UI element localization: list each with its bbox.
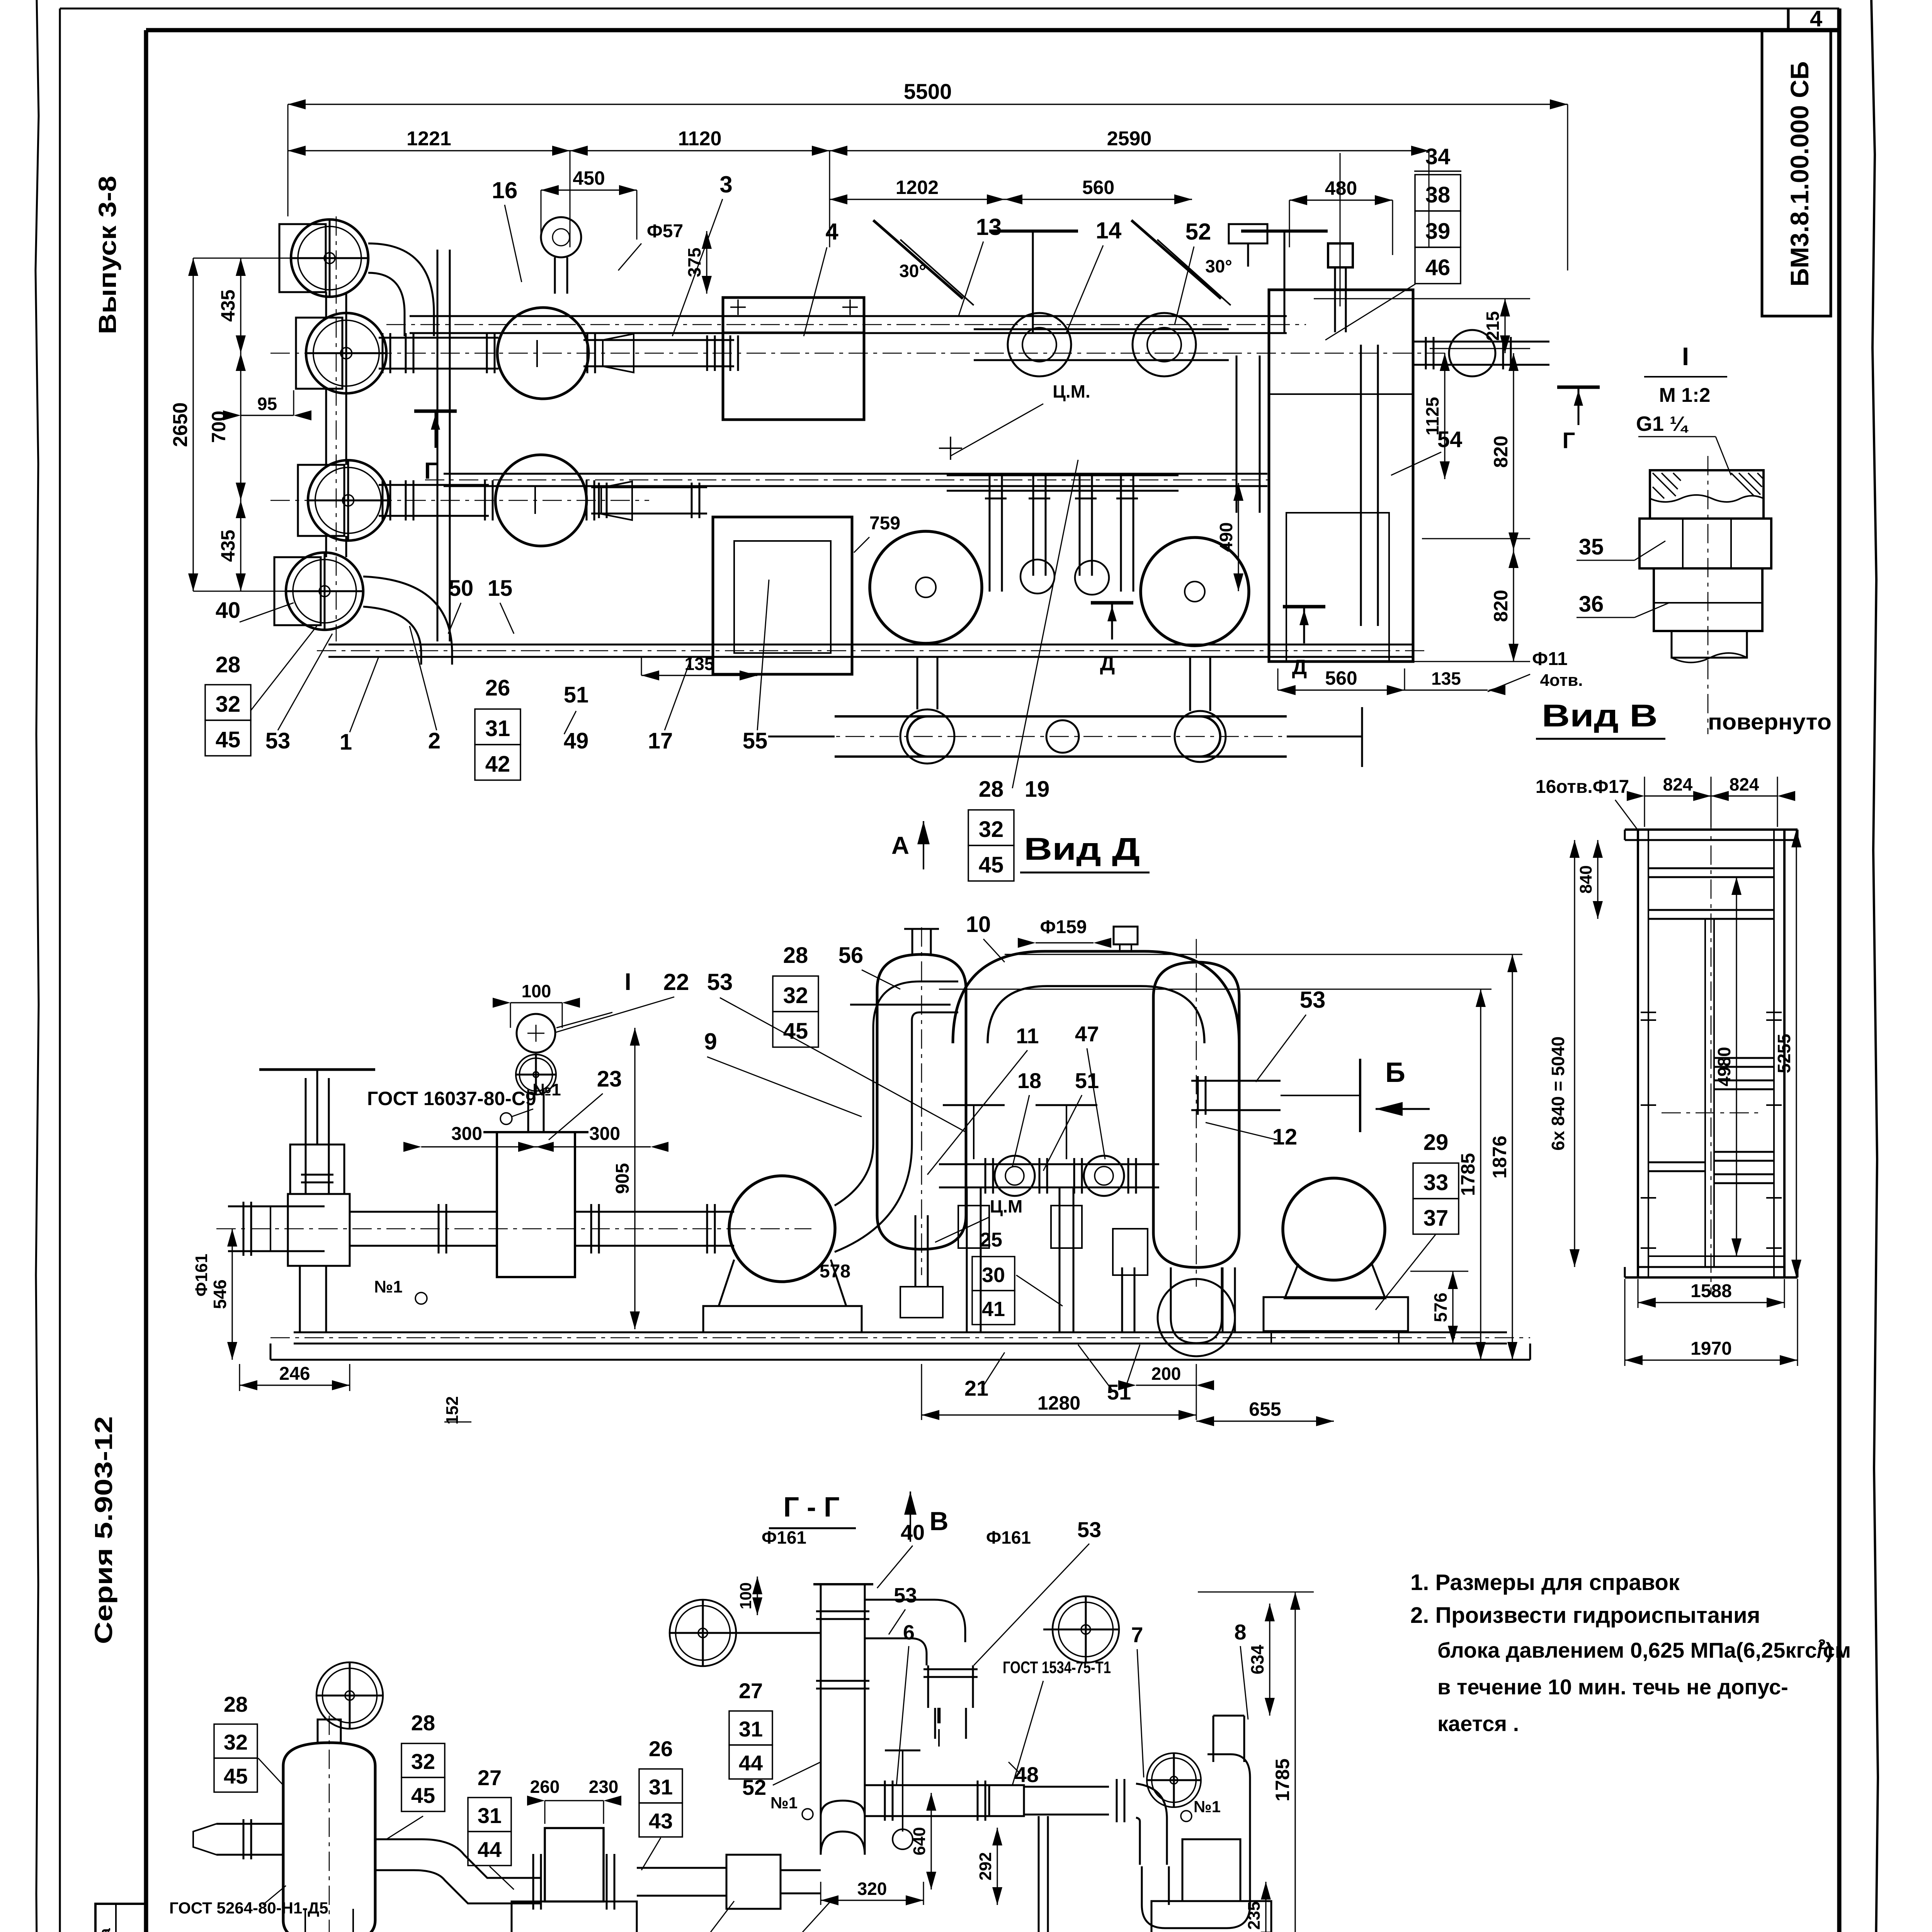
svg-text:В: В	[929, 1507, 948, 1536]
svg-text:820: 820	[1490, 435, 1512, 468]
view2 arch pipe between vessels	[953, 951, 1239, 1043]
svg-text:блока давлением 0,625 МПа(6,25: блока давлением 0,625 МПа(6,25кгс/см	[1437, 1638, 1851, 1662]
dim 135 left bottom	[641, 675, 757, 676]
view2 vessel2 separator	[1153, 962, 1239, 1267]
svg-text:Серия 5.903-12: Серия 5.903-12	[90, 1416, 117, 1644]
view2 vessel2 bottom drain U	[1171, 1267, 1222, 1343]
v3 drain small pipe center	[1038, 1816, 1040, 1932]
v2 dims 300 300	[421, 1146, 536, 1147]
svg-text:№1: №1	[770, 1794, 798, 1812]
svg-text:26: 26	[649, 1736, 673, 1761]
v3 handwheel top left	[316, 1662, 383, 1729]
svg-text:29: 29	[1423, 1130, 1449, 1155]
sheet number box 4	[1787, 9, 1790, 30]
svg-text:100: 100	[736, 1582, 755, 1609]
left dims 435 700 435	[240, 258, 241, 353]
view1 gauge small top	[541, 217, 581, 257]
svg-text:Ф161: Ф161	[986, 1527, 1031, 1548]
svg-text:28: 28	[224, 1692, 248, 1716]
svg-text:30°: 30°	[899, 261, 926, 281]
svg-text:49: 49	[564, 728, 589, 753]
svg-text:32: 32	[979, 817, 1004, 842]
svg-text:52: 52	[742, 1775, 766, 1799]
svg-text:578: 578	[820, 1261, 850, 1282]
svg-text:Д: Д	[1100, 652, 1115, 675]
svg-text:Ф161: Ф161	[192, 1254, 211, 1297]
svg-text:2: 2	[1818, 1636, 1826, 1652]
view1 upper pipe centerline	[270, 353, 1445, 354]
v2 dim 100	[510, 1002, 562, 1003]
svg-text:546: 546	[210, 1279, 230, 1309]
svg-text:М 1:2: М 1:2	[1659, 384, 1711, 406]
view1 lower flywheel pump right	[1141, 537, 1249, 646]
svg-text:1120: 1120	[678, 128, 722, 150]
section flag Д view1 pair	[1091, 601, 1133, 605]
svg-text:759: 759	[869, 513, 900, 534]
view1 pump sphere upper	[497, 308, 588, 399]
svg-text:300: 300	[589, 1124, 620, 1144]
view1 drop pipes to bottom manifold	[917, 657, 918, 709]
frame dim 840	[1597, 840, 1598, 919]
svg-text:17: 17	[648, 728, 673, 753]
svg-text:43: 43	[649, 1809, 673, 1833]
frame dims 4980 5255	[1736, 877, 1737, 1256]
dim 1202 560	[830, 199, 1005, 200]
svg-text:I: I	[1682, 342, 1689, 371]
svg-text:1970: 1970	[1690, 1338, 1732, 1359]
svg-text:25: 25	[980, 1229, 1002, 1251]
svg-text:39: 39	[1425, 219, 1451, 244]
v3 left vessel	[283, 1743, 375, 1932]
dim 5500	[288, 104, 1568, 105]
view1 handwheel valve top-left	[291, 219, 368, 297]
svg-text:27: 27	[478, 1765, 502, 1790]
svg-text:28: 28	[216, 652, 241, 677]
svg-text:260: 260	[530, 1777, 560, 1797]
view2 motor base pedestal	[1264, 1297, 1408, 1331]
svg-text:51: 51	[564, 682, 589, 707]
section flag Г view1 left	[414, 410, 457, 413]
svg-text:480: 480	[1325, 177, 1357, 199]
v3 pipe vessel to pump block	[375, 1839, 541, 1878]
svg-text:435: 435	[217, 289, 239, 321]
svg-text:БМ3.8.1.00.000 СБ: БМ3.8.1.00.000 СБ	[1785, 61, 1814, 287]
svg-text:37: 37	[1423, 1206, 1449, 1231]
view1 right tank outline	[1269, 290, 1413, 662]
svg-text:27: 27	[739, 1679, 763, 1703]
right dims 215 820 1125 820	[1504, 299, 1505, 353]
svg-text:6х 840 = 5040: 6х 840 = 5040	[1548, 1036, 1568, 1150]
view1 lower pipe centerline	[270, 500, 649, 501]
v2 dim 246 152	[240, 1384, 350, 1386]
svg-text:655: 655	[1249, 1398, 1281, 1420]
svg-text:56: 56	[838, 943, 864, 968]
svg-text:95: 95	[257, 394, 277, 414]
frame dims 1588 1970	[1638, 1302, 1784, 1303]
svg-text:28: 28	[979, 777, 1004, 802]
v3 center riser pipe	[820, 1584, 822, 1855]
svg-text:2590: 2590	[1107, 128, 1152, 150]
svg-text:32: 32	[411, 1749, 435, 1774]
v3 right pump block	[1182, 1839, 1240, 1901]
svg-text:Г: Г	[424, 458, 437, 484]
svg-text:2. Произвести гидроиспытания: 2. Произвести гидроиспытания	[1410, 1603, 1760, 1628]
svg-text:44: 44	[739, 1751, 763, 1775]
v3 handwheel right	[1053, 1596, 1119, 1663]
svg-text:45: 45	[411, 1783, 435, 1808]
v3 dims 320 640 292	[821, 1900, 923, 1901]
view1 lower flywheel pump left	[870, 531, 982, 643]
v3 pump block mid	[545, 1828, 604, 1901]
svg-text:435: 435	[217, 530, 239, 562]
svg-text:640: 640	[910, 1827, 929, 1855]
dim row 1221 1120 2590	[288, 150, 570, 151]
svg-text:1785: 1785	[1457, 1153, 1479, 1196]
svg-text:52: 52	[1185, 219, 1211, 245]
svg-text:41: 41	[982, 1298, 1005, 1321]
svg-text:40: 40	[901, 1520, 925, 1544]
svg-text:53: 53	[265, 728, 291, 753]
svg-text:320: 320	[857, 1879, 887, 1899]
svg-text:1280: 1280	[1037, 1392, 1080, 1414]
svg-text:Б: Б	[1385, 1057, 1405, 1088]
section flag Г right	[1557, 386, 1600, 389]
svg-text:4отв.: 4отв.	[1540, 671, 1583, 690]
svg-text:34: 34	[1425, 144, 1451, 169]
v3 dim 100 left riser	[757, 1577, 758, 1615]
svg-text:Г: Г	[1563, 428, 1575, 453]
svg-text:6: 6	[903, 1621, 915, 1644]
view1 square cap fitting	[1328, 243, 1353, 267]
svg-text:I: I	[936, 1703, 942, 1728]
svg-text:ГОСТ 5264-80-Н1-Д5: ГОСТ 5264-80-Н1-Д5	[169, 1899, 328, 1917]
frame cross members	[1648, 867, 1774, 869]
svg-text:53: 53	[894, 1584, 917, 1607]
frame side view rails	[1638, 830, 1784, 1277]
view2 left pipe to filter	[350, 1211, 497, 1213]
svg-text:10: 10	[966, 912, 991, 937]
svg-text:32: 32	[216, 692, 241, 717]
svg-text:1202: 1202	[896, 177, 939, 198]
v3 sq fitting 48	[989, 1785, 1024, 1816]
svg-text:ГОСТ 1534-75-Т1: ГОСТ 1534-75-Т1	[1003, 1658, 1111, 1677]
svg-text:560: 560	[1325, 667, 1357, 689]
view1 riser pipes right tanks	[1236, 355, 1238, 513]
view2 vessel2 column pipes to base	[1121, 1267, 1123, 1332]
inner thick frame	[146, 28, 1839, 32]
frame flange ticks	[1641, 1012, 1656, 1013]
view1 long pipe run upper	[410, 315, 1287, 317]
v3 pipe pump to center valve	[637, 1867, 726, 1869]
svg-text:11: 11	[1016, 1024, 1039, 1048]
svg-text:840: 840	[1577, 865, 1595, 893]
v2 dims right 576 1785 1876	[1452, 1271, 1453, 1344]
view1 main header pipe upper row	[379, 337, 498, 339]
svg-text:45: 45	[783, 1019, 808, 1044]
view2 main pipe axis	[216, 1228, 811, 1230]
svg-text:47: 47	[1075, 1022, 1099, 1046]
svg-text:5500: 5500	[904, 79, 952, 104]
dim 480	[1289, 199, 1393, 201]
view1 vert pipe x3544	[1360, 345, 1362, 626]
svg-text:824: 824	[1730, 774, 1759, 794]
v3 handwheel left of riser	[670, 1600, 736, 1666]
svg-text:№1: №1	[1194, 1798, 1221, 1816]
view2 left tee assembly	[228, 1206, 325, 1207]
svg-text:30°: 30°	[1205, 256, 1232, 276]
view1 drop flanges	[985, 490, 1007, 492]
svg-text:Ф11: Ф11	[1532, 649, 1568, 669]
svg-text:4980: 4980	[1714, 1047, 1734, 1086]
svg-text:576: 576	[1430, 1293, 1451, 1322]
v2 dims left 546 f161	[231, 1229, 233, 1360]
dim 450	[541, 189, 637, 190]
svg-text:Выпуск 3-8: Выпуск 3-8	[94, 176, 121, 334]
svg-text:31: 31	[478, 1803, 502, 1828]
view1 left riser pipe	[325, 292, 327, 318]
svg-text:300: 300	[451, 1124, 482, 1144]
view1 lower header pipes	[379, 484, 489, 486]
svg-text:13: 13	[976, 214, 1002, 240]
svg-text:35: 35	[1579, 534, 1604, 560]
svg-text:135: 135	[1431, 668, 1461, 689]
svg-text:55: 55	[743, 728, 768, 753]
left dim chain 2650	[192, 258, 194, 591]
svg-text:44: 44	[478, 1837, 502, 1862]
v3 dims 260 230	[545, 1800, 604, 1801]
view2 motor right	[1283, 1178, 1385, 1280]
svg-text:31: 31	[485, 716, 510, 741]
svg-text:ГОСТ 16037-80-С9: ГОСТ 16037-80-С9	[367, 1088, 536, 1109]
view1 upper axis flange pairs	[382, 333, 384, 373]
svg-text:292: 292	[976, 1852, 995, 1880]
svg-text:G1 ¼: G1 ¼	[1636, 412, 1689, 435]
svg-text:45: 45	[979, 852, 1004, 878]
svg-text:Подп. и дата: Подп. и дата	[97, 1928, 114, 1932]
view2 tee with long stem right	[1191, 1080, 1281, 1082]
svg-text:Ц.М: Ц.М	[990, 1196, 1023, 1216]
top right stamp box БМ3.8.1.00.000 СБ	[1762, 30, 1831, 316]
svg-text:1588: 1588	[1690, 1281, 1732, 1301]
svg-text:в течение 10 мин. течь не допу: в течение 10 мин. течь не допус-	[1437, 1675, 1788, 1699]
v2 dims bottom 1280 655 200	[922, 1414, 1196, 1415]
svg-text:31: 31	[649, 1775, 673, 1799]
svg-text:38: 38	[1425, 182, 1451, 207]
svg-text:18: 18	[1017, 1068, 1041, 1093]
svg-text:36: 36	[1579, 592, 1604, 617]
view2 manifold small valves	[939, 1163, 1159, 1165]
svg-text:21: 21	[964, 1376, 988, 1400]
view1 handwheel column centerline	[336, 216, 337, 641]
svg-text:42: 42	[485, 752, 510, 777]
svg-text:Вид В: Вид В	[1542, 698, 1658, 733]
v2 dim 905	[634, 1028, 635, 1329]
svg-text:Ц.М.: Ц.М.	[1053, 381, 1090, 401]
svg-text:23: 23	[597, 1066, 622, 1092]
svg-text:12: 12	[1272, 1124, 1298, 1150]
svg-text:1876: 1876	[1489, 1136, 1510, 1179]
svg-text:54: 54	[1437, 427, 1463, 452]
svg-text:45: 45	[216, 727, 241, 752]
v3 view arrow В	[904, 1492, 917, 1515]
svg-text:3: 3	[719, 172, 732, 197]
svg-text:450: 450	[573, 167, 605, 189]
v3 dims right 1785 235 166	[1294, 1592, 1296, 1932]
view1 inclined valve handles 30deg	[873, 220, 963, 299]
v3 left vessel outlet pipe	[216, 1823, 283, 1825]
svg-text:повернуто: повернуто	[1708, 709, 1832, 735]
svg-text:Ф57: Ф57	[647, 221, 683, 241]
svg-text:Ф159: Ф159	[1040, 917, 1087, 937]
dim 95	[241, 415, 294, 416]
svg-text:824: 824	[1663, 774, 1693, 794]
svg-text:53: 53	[1300, 987, 1326, 1013]
view1 left riser long	[437, 250, 439, 641]
view2 base channel	[294, 1332, 1507, 1333]
svg-text:45: 45	[224, 1764, 248, 1788]
svg-text:33: 33	[1423, 1170, 1449, 1195]
svg-text:16: 16	[492, 177, 518, 203]
dim 375 rotated	[706, 231, 707, 294]
dim 135 bottom right	[1405, 689, 1488, 690]
v3 valve stem center with N1	[902, 1750, 903, 1832]
view1 bottom manifold pipe	[835, 715, 1287, 718]
svg-text:8: 8	[1234, 1620, 1246, 1644]
svg-text:820: 820	[1490, 590, 1512, 622]
left margin stamp column cells	[95, 1904, 147, 1932]
page scan right edge line	[1871, 0, 1879, 1932]
view1 small tee valves lower	[1020, 560, 1054, 594]
frame dims 824 824	[1645, 795, 1711, 796]
view2 filter to pump pipe	[575, 1211, 734, 1213]
svg-text:32: 32	[783, 983, 808, 1008]
svg-text:53: 53	[1077, 1517, 1101, 1542]
svg-text:28: 28	[783, 943, 808, 968]
svg-text:Вид Д: Вид Д	[1024, 832, 1140, 867]
svg-text:1: 1	[340, 730, 352, 755]
svg-text:100: 100	[522, 981, 551, 1001]
view1 central drops manifold	[989, 474, 991, 592]
v3 right small handwheel	[1147, 1753, 1201, 1807]
svg-text:246: 246	[279, 1364, 310, 1384]
svg-text:9: 9	[704, 1029, 717, 1054]
svg-text:Г - Г: Г - Г	[783, 1492, 840, 1523]
svg-text:634: 634	[1247, 1645, 1267, 1674]
svg-text:560: 560	[1082, 177, 1114, 198]
svg-text:200: 200	[1151, 1364, 1181, 1384]
svg-text:4: 4	[825, 219, 838, 245]
svg-text:2650: 2650	[169, 402, 192, 447]
svg-text:31: 31	[739, 1717, 763, 1741]
dim 490 rotated	[1238, 483, 1239, 591]
svg-text:32: 32	[224, 1730, 248, 1754]
view1 base rails	[328, 644, 1414, 646]
view2 vessel1 separator	[877, 954, 966, 1249]
view1 valve body hw2	[306, 313, 386, 393]
svg-text:235: 235	[1245, 1901, 1264, 1930]
page scan left edge line	[36, 0, 39, 1932]
v3 tee to right top	[865, 1600, 965, 1642]
svg-text:1785: 1785	[1272, 1759, 1293, 1801]
svg-text:16отв.Ф17: 16отв.Ф17	[1536, 777, 1629, 797]
svg-text:19: 19	[1025, 777, 1050, 802]
view2 drop pipes with valves to base	[966, 1188, 968, 1332]
view1 tee fitting circles mid top	[1008, 313, 1071, 376]
view1 lower tank block	[713, 517, 852, 674]
view2 small fittings under vessel1	[900, 1287, 943, 1318]
svg-text:1. Размеры для справок: 1. Размеры для справок	[1410, 1570, 1680, 1595]
view1 elbow pipe from hw1	[368, 243, 434, 336]
svg-text:Д: Д	[1292, 656, 1307, 679]
view1 valve hw4	[286, 553, 363, 630]
svg-text:152: 152	[443, 1396, 462, 1424]
svg-text:1221: 1221	[406, 128, 451, 150]
view1 elbow pipe hw4 to bottom	[363, 607, 421, 665]
svg-text:46: 46	[1425, 255, 1451, 280]
view direction arrow А	[917, 821, 930, 844]
svg-text:375: 375	[684, 248, 704, 277]
svg-text:905: 905	[612, 1163, 633, 1194]
svg-text:15: 15	[488, 576, 513, 601]
svg-text:2: 2	[428, 728, 440, 753]
svg-text:48: 48	[1015, 1762, 1039, 1787]
svg-text:№1: №1	[532, 1080, 561, 1099]
frame centerline	[1711, 811, 1712, 1294]
view1 lower axis flange pairs	[382, 480, 384, 520]
view1 upper tank block	[723, 298, 864, 420]
view1 right pipe and valve	[1413, 341, 1549, 343]
svg-text:4: 4	[1810, 6, 1822, 31]
svg-text:22: 22	[663, 969, 689, 995]
svg-text:40: 40	[216, 598, 241, 623]
view1 t-handle valves on upper pipe	[1032, 232, 1034, 332]
svg-text:№1: №1	[374, 1277, 403, 1296]
svg-text:30: 30	[982, 1264, 1005, 1287]
frame dim 6x840=5040	[1574, 840, 1575, 1267]
view2 left valve stem and T-handle	[305, 1078, 307, 1194]
view2 gauge I circle	[517, 1014, 555, 1053]
view1 pump sphere lower	[495, 455, 587, 546]
svg-text:А: А	[891, 832, 909, 859]
view1 valve hw3	[308, 460, 388, 541]
svg-text:490: 490	[1216, 522, 1236, 552]
svg-text:26: 26	[485, 675, 510, 701]
view2 vessel1 top cap	[912, 929, 913, 954]
svg-text:Ф161: Ф161	[762, 1527, 806, 1548]
svg-text:230: 230	[589, 1777, 619, 1797]
view2 filter vessel	[497, 1132, 575, 1277]
dim 560 bottom	[1278, 689, 1405, 690]
detail I union fitting	[1708, 456, 1709, 734]
svg-text:28: 28	[411, 1711, 435, 1735]
v3 center cross fitting	[821, 1832, 865, 1855]
outer thin border	[60, 8, 1839, 10]
v3 right assembly pipes	[1116, 1779, 1118, 1822]
svg-text:): )	[1826, 1638, 1833, 1662]
svg-text:51: 51	[1075, 1068, 1099, 1093]
view2 pump body	[729, 1176, 835, 1282]
view1 reducer cones	[603, 334, 634, 372]
svg-text:I: I	[624, 969, 631, 995]
view1 long pipe run lower	[444, 473, 1267, 475]
view2 pipe pump to vessel1	[835, 981, 958, 1206]
svg-text:50: 50	[449, 576, 474, 601]
svg-text:215: 215	[1483, 311, 1503, 341]
svg-text:5255: 5255	[1774, 1034, 1794, 1073]
svg-text:кается .: кается .	[1437, 1711, 1519, 1736]
svg-text:53: 53	[707, 969, 733, 995]
svg-text:7: 7	[1131, 1622, 1143, 1647]
